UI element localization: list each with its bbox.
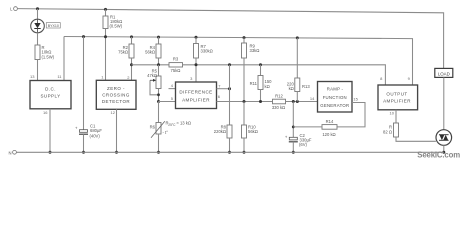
wire bus to R5 top [158,65,160,76]
svg-text:14: 14 [310,96,315,101]
wire R13 bottom lead [296,92,298,102]
resistor R8 220k [214,124,232,138]
svg-text:(1.5W): (1.5W) [42,54,55,59]
wire gate resistor to triac gate [396,137,436,141]
node N terminal [8,150,16,155]
node junction C1 top [82,35,85,38]
node junction R2 top [130,35,133,38]
svg-text:kΩ: kΩ [289,86,294,91]
wire R4 bottom to bus [158,58,160,65]
wire bottom rail N [16,151,443,153]
node junction C2 top [292,100,295,103]
wire pin 4 stub [169,88,176,90]
svg-text:75kΩ: 75kΩ [118,50,128,55]
node junction pin16-N [49,151,52,154]
resistor R 10k 1.5W [35,45,55,60]
block DIFFERENCE AMPLIFIER [176,82,217,109]
node junction R11 top [259,63,262,66]
wire R1 to ZCD pin 1 [105,29,107,81]
svg-text:120 kΩ: 120 kΩ [322,132,335,137]
node junction R4-bus [157,63,160,66]
svg-text:kΩ: kΩ [265,84,270,89]
wire triac to N rail [443,145,445,152]
node junction R11-pin6bus [259,100,262,103]
svg-text:(6V): (6V) [299,142,308,147]
resistor R10 56k [242,124,258,138]
node junction R7 top [195,36,198,39]
svg-text:R13: R13 [302,84,310,89]
wire pin 10 to gate resistor [395,110,397,123]
svg-text:R11: R11 [250,81,258,86]
node junction R10-N [243,151,246,154]
svg-text:(0.5W): (0.5W) [110,23,123,28]
wire bus65 left segment [132,64,170,66]
node junction R13 top [296,36,299,39]
resistor R11 150k [250,76,273,90]
wire bus65 right segment [183,65,386,85]
wire R to DC supply pin 13 [37,60,39,81]
svg-text:N: N [8,150,11,155]
node junction pin7-R8col [228,87,231,90]
resistor R13 220k [287,78,311,92]
resistor R gate 82ohm [383,123,398,137]
svg-text:12: 12 [111,110,116,115]
block ZERO-CROSSING DETECTOR [96,80,136,109]
wire Vcc rail [64,37,413,86]
svg-text:13: 13 [30,74,35,79]
node junction R13 bottom [296,100,299,103]
svg-text:SUPPLY: SUPPLY [40,94,60,99]
triac [436,130,452,146]
wire ZCD pin 12 to N rail [116,109,118,152]
wire R8 column [229,65,231,125]
svg-text:ZERO -: ZERO - [107,86,125,91]
svg-text:R6: R6 [150,125,156,130]
svg-text:R12: R12 [275,94,283,99]
svg-text:DIFFERENCE: DIFFERENCE [179,89,212,94]
block OUTPUT AMPLIFIER [378,85,418,110]
svg-text:25°C: 25°C [168,123,176,127]
node junction R6-N [157,151,160,154]
svg-text:15: 15 [353,96,358,101]
resistor R2 75k [118,44,134,58]
svg-text:10: 10 [390,110,395,115]
svg-text:330kΩ: 330kΩ [201,49,213,54]
node junction C1-N [82,151,85,154]
svg-text:GENERATOR: GENERATOR [320,103,349,108]
svg-text:OUTPUT: OUTPUT [386,91,407,96]
node junction R1-Vcc [104,35,107,38]
wire R10 to N rail [243,138,245,152]
svg-text:R14: R14 [326,119,334,124]
wire R1 top lead [105,9,107,16]
block RAMP-FUNCTION GENERATOR [318,82,353,113]
node junction diode-top [36,7,39,10]
svg-text:220kΩ: 220kΩ [214,129,226,134]
wire pin 7 to R8 column [217,88,230,90]
svg-text:75kΩ: 75kΩ [171,68,181,73]
wire DC supply pin 16 to N rail [49,109,51,153]
wire R4 top lead [158,37,160,44]
wire pin 5 [159,101,176,103]
svg-text:16: 16 [43,110,48,115]
wire C1 branch [83,37,85,130]
wire C1 to N rail [83,134,85,152]
resistor R1 180k [103,15,123,29]
wire diode branch [37,9,39,19]
node junction R9 top [243,36,246,39]
wire R2 bottom to bus / ZCD pin 2 [131,58,133,80]
svg-text:AMPLIFIER: AMPLIFIER [383,98,411,103]
diode BYX10 [31,19,61,33]
wire R9 down through bus65 to pin6 bus [243,58,245,102]
svg-text:(40V): (40V) [90,133,101,138]
wire C2 column [292,102,294,138]
node junction triac-N [442,151,445,154]
resistor R4 56k [145,44,161,58]
node junction R2-bus [130,63,133,66]
node junction R4 top [157,36,160,39]
wire R9 top lead [243,38,245,43]
wire R14 to C2 node [293,126,322,128]
wire pin6 bus right segment to ramp pin 14 [286,101,318,103]
wire top rail L [17,9,443,69]
wire ramp pin 15 to R14 [337,103,365,127]
svg-text:DETECTOR: DETECTOR [102,99,131,104]
svg-text:56kΩ: 56kΩ [248,129,258,134]
node junction C2-R14 [292,126,295,129]
node junction R8-N [228,151,231,154]
thermistor R6 [150,121,191,138]
node junction pin12-N [115,151,118,154]
svg-text:33kΩ: 33kΩ [250,48,260,53]
resistor R3 75k horizontal [169,57,183,73]
svg-text:D.C.: D.C. [45,87,56,92]
svg-text:AMPLIFIER: AMPLIFIER [182,97,210,102]
svg-text:BYX10: BYX10 [48,24,59,28]
resistor R14 120k horizontal [322,119,337,137]
capacitor C2 330uF [285,133,312,147]
svg-text:FUNCTION: FUNCTION [323,95,347,100]
wire diode to resistor R [37,33,39,45]
node junction R8 bus65 [228,63,231,66]
node L terminal [10,6,17,11]
svg-text:LOAD: LOAD [438,71,450,76]
wire LOAD to triac [443,77,445,129]
block D.C. SUPPLY [30,81,71,109]
node junction pin5 [157,100,160,103]
wire R13 column upper [296,38,298,78]
resistor R12 330k horizontal [272,94,286,110]
wire DC supply pin 11 to Vcc rail [63,37,65,81]
svg-text:CROSSING: CROSSING [102,93,130,98]
svg-text:SeekIC.com: SeekIC.com [417,150,460,159]
wire R2 top lead [131,37,133,44]
resistor R9 33k [242,43,260,58]
svg-text:- t°: - t° [163,130,169,135]
node junction R7-bus [195,63,198,66]
svg-text:330 kΩ: 330 kΩ [272,105,285,110]
wire C2 to N rail [292,142,294,153]
wire R11 bottom lead [260,90,262,102]
block LOAD [435,68,453,77]
wire R5 node to thermistor R6 [158,102,160,123]
svg-text:R3: R3 [173,57,179,62]
node junction R9-pin6bus [243,100,246,103]
svg-text:56kΩ: 56kΩ [145,50,155,55]
wire R7 top lead [195,37,197,43]
svg-text:≈ 13 kΩ: ≈ 13 kΩ [177,121,192,126]
capacitor C1 680uF [75,123,102,138]
wire R11 top lead [260,65,262,76]
svg-text:82 Ω: 82 Ω [383,130,392,135]
node junction R1 top [104,8,107,11]
wire R7 bottom through bus to pin 3 [195,58,197,82]
resistor R7 330k [194,44,213,59]
svg-text:RAMP -: RAMP - [327,86,344,91]
wire R8 to N rail [229,138,231,152]
potentiometer R5 47k [147,68,161,101]
wire pin 6 bus [217,101,273,103]
wire R6 to N rail [158,134,160,152]
wire R10 top lead [243,102,245,126]
svg-text:47kΩ: 47kΩ [147,73,157,78]
node junction C2-N [292,151,295,154]
